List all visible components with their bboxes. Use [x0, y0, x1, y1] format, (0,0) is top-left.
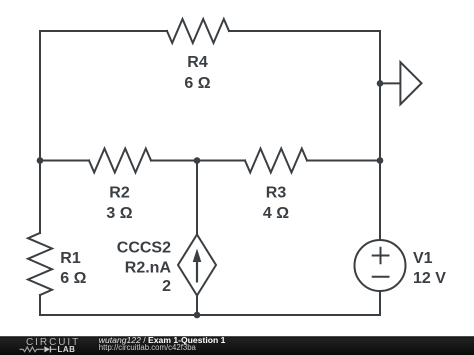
voltage source V1 plus sign: [373, 248, 389, 263]
wire left rail: [39, 31, 41, 233]
wire top rail right segment: [229, 30, 380, 32]
output probe triangle: [400, 62, 421, 104]
voltage source V1 minus sign: [373, 276, 389, 278]
svg-text:LAB: LAB: [58, 345, 76, 354]
svg-text:CCCS2: CCCS2: [117, 240, 171, 257]
voltage source V1 circle: [355, 240, 406, 291]
label V1 value 12 V: [413, 270, 446, 287]
label R3 name: [266, 185, 287, 202]
svg-text:2: 2: [162, 278, 171, 295]
svg-text:R2: R2: [109, 185, 130, 202]
junction node output probe: [377, 80, 384, 87]
current source CCCS2 diamond: [178, 235, 216, 296]
label R1 name: [60, 250, 81, 267]
svg-text:R1: R1: [60, 250, 81, 267]
CCCS2 arrow: [193, 249, 202, 283]
svg-text:3 Ω: 3 Ω: [106, 205, 132, 222]
label R2 name: [109, 185, 130, 202]
label R4 value 6 ohm: [184, 75, 210, 92]
label CCCS2 gain 2: [162, 278, 171, 295]
footer title text: [99, 335, 226, 352]
junction node right middle: [377, 157, 384, 164]
logo resistor zigzag: [20, 347, 44, 352]
logo diode symbol: [44, 346, 56, 352]
resistor R2: [89, 149, 151, 173]
resistor R3: [245, 149, 307, 173]
wire right rail top: [379, 31, 381, 240]
svg-text:V1: V1: [413, 250, 433, 267]
label R3 value 4 ohm: [263, 205, 289, 222]
svg-text:12 V: 12 V: [413, 270, 446, 287]
wire bottom rail: [40, 314, 380, 316]
svg-text:R2.nA: R2.nA: [125, 260, 172, 277]
wire top rail left segment: [40, 30, 167, 32]
svg-text:6 Ω: 6 Ω: [184, 75, 210, 92]
resistor R1: [28, 233, 52, 295]
logo LAB text: [58, 345, 76, 354]
junction node left middle: [37, 157, 44, 164]
resistor R4: [167, 19, 229, 43]
wire left rail lower: [39, 295, 41, 315]
logo CIRCUIT text: [26, 337, 80, 348]
svg-text:6 Ω: 6 Ω: [60, 270, 86, 287]
wire middle rail right: [307, 160, 380, 162]
svg-text:http://circuitlab.com/c42f3ba: http://circuitlab.com/c42f3ba: [99, 343, 197, 352]
wire middle rail center: [151, 160, 245, 162]
junction node CCCS2 bottom: [194, 312, 201, 319]
label R2 value 3 ohm: [106, 205, 132, 222]
svg-text:R4: R4: [187, 54, 208, 71]
junction node CCCS2 top: [194, 157, 201, 164]
label R4 name: [187, 54, 208, 71]
wire right rail bottom: [379, 291, 381, 315]
svg-text:4 Ω: 4 Ω: [263, 205, 289, 222]
label R1 value 6 ohm: [60, 270, 86, 287]
svg-text:R3: R3: [266, 185, 287, 202]
label CCCS2 control R2.nA: [125, 260, 172, 277]
wire CCCS2 bottom lead: [196, 296, 198, 316]
label V1 name: [413, 250, 433, 267]
wire output probe lead: [380, 82, 400, 84]
wire CCCS2 top lead: [196, 161, 198, 235]
wire middle rail left: [40, 160, 89, 162]
label CCCS2 name: [117, 240, 171, 257]
